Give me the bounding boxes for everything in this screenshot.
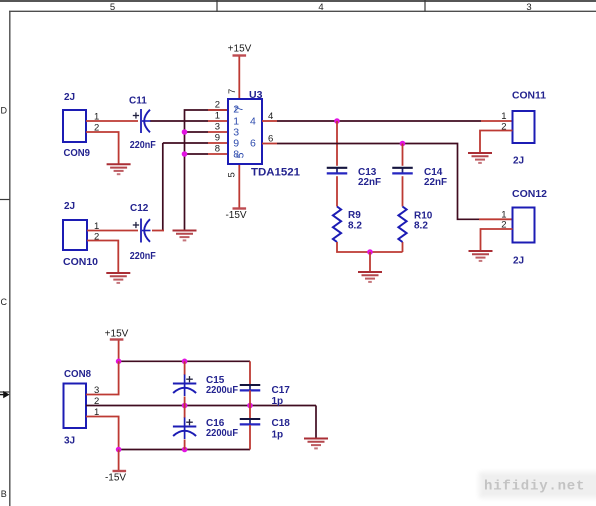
svg-text:5: 5 (226, 172, 237, 177)
svg-text:3: 3 (526, 2, 531, 13)
svg-text:+15V: +15V (228, 44, 252, 55)
svg-text:+15V: +15V (105, 329, 129, 340)
svg-text:22nF: 22nF (424, 177, 447, 188)
svg-text:4: 4 (318, 2, 323, 13)
svg-text:CON9: CON9 (64, 148, 91, 159)
svg-text:7: 7 (233, 106, 245, 112)
svg-text:-15V: -15V (105, 473, 126, 484)
svg-text:C12: C12 (130, 203, 149, 214)
svg-text:R9: R9 (348, 210, 361, 221)
svg-text:220nF: 220nF (130, 140, 156, 151)
svg-text:1p: 1p (272, 396, 284, 407)
svg-text:CON8: CON8 (64, 369, 91, 380)
svg-text:1p: 1p (272, 430, 284, 441)
svg-text:6: 6 (268, 134, 273, 145)
svg-text:2J: 2J (64, 201, 75, 212)
svg-text:C11: C11 (129, 96, 147, 107)
svg-text:2J: 2J (513, 156, 524, 167)
svg-text:8.2: 8.2 (414, 221, 428, 232)
svg-text:9: 9 (215, 132, 220, 143)
svg-text:22nF: 22nF (358, 177, 381, 188)
svg-text:C17: C17 (272, 385, 291, 396)
svg-text:hifidiy.net: hifidiy.net (484, 479, 585, 495)
svg-text:U3: U3 (249, 89, 263, 101)
svg-text:2J: 2J (64, 92, 75, 103)
svg-text:5: 5 (110, 2, 115, 13)
svg-text:1: 1 (215, 110, 220, 121)
svg-text:7: 7 (227, 89, 238, 94)
svg-text:8: 8 (215, 143, 220, 154)
svg-text:220nF: 220nF (130, 251, 156, 262)
svg-text:2J: 2J (513, 256, 524, 267)
svg-text:CON11: CON11 (512, 91, 546, 102)
svg-text:1: 1 (501, 111, 506, 122)
svg-text:5: 5 (234, 152, 246, 158)
svg-text:2200uF: 2200uF (206, 428, 238, 439)
svg-text:B: B (1, 489, 7, 499)
svg-text:3J: 3J (64, 436, 75, 447)
svg-text:C: C (1, 297, 8, 307)
svg-text:2: 2 (215, 99, 220, 110)
svg-text:-15V: -15V (225, 210, 246, 221)
svg-text:6: 6 (250, 138, 256, 150)
svg-text:D: D (1, 106, 8, 116)
svg-text:TDA1521: TDA1521 (251, 167, 300, 179)
svg-text:C18: C18 (272, 418, 291, 429)
svg-text:CON12: CON12 (512, 189, 547, 200)
svg-text:8.2: 8.2 (348, 221, 362, 232)
svg-text:3: 3 (215, 121, 220, 132)
svg-text:CON10: CON10 (63, 257, 98, 268)
svg-text:4: 4 (268, 111, 273, 122)
svg-text:2200uF: 2200uF (206, 385, 238, 396)
svg-text:4: 4 (250, 116, 256, 128)
